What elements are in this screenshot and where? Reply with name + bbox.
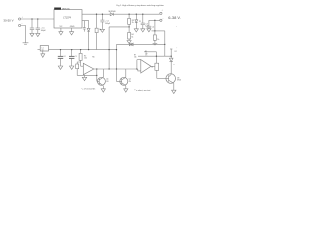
- svg-text:R6: R6: [92, 56, 94, 58]
- svg-text:10k: 10k: [134, 57, 137, 59]
- svg-text:-: -: [22, 23, 23, 25]
- svg-text:MUR340: MUR340: [109, 11, 116, 13]
- svg-text:*: *: [177, 48, 178, 50]
- svg-text:C5: C5: [75, 56, 77, 58]
- svg-text:6-38 V.: 6-38 V.: [168, 15, 181, 20]
- svg-text:R7: R7: [134, 55, 136, 57]
- svg-text:**: **: [173, 65, 175, 67]
- svg-text:C4: C4: [64, 56, 66, 58]
- svg-text:VC: VC: [60, 26, 63, 28]
- svg-text:R5: R5: [145, 51, 147, 53]
- svg-text:3906: 3906: [177, 80, 181, 82]
- svg-text:100µF: 100µF: [41, 30, 47, 32]
- svg-text:GND: GND: [70, 26, 75, 28]
- svg-text:+: +: [162, 10, 164, 12]
- svg-text:+: +: [22, 17, 24, 19]
- svg-text:** = select, see text: ** = select, see text: [134, 89, 151, 92]
- svg-text:2N: 2N: [129, 81, 132, 83]
- svg-text:2k: 2k: [132, 22, 134, 24]
- svg-text:C4: C4: [152, 27, 154, 29]
- svg-text:10k: 10k: [145, 53, 148, 55]
- svg-text:5k: 5k: [131, 36, 133, 38]
- svg-text:MBR745: MBR745: [62, 8, 71, 10]
- svg-text:30-50 V: 30-50 V: [3, 19, 13, 23]
- svg-text:100µF: 100µF: [105, 23, 111, 25]
- svg-text:1k: 1k: [151, 66, 153, 68]
- svg-text:D2: D2: [175, 51, 177, 53]
- svg-text:Fig 1. High efficiency step-do: Fig 1. High efficiency step-down switchi…: [117, 4, 165, 7]
- svg-text:10k: 10k: [84, 58, 87, 60]
- svg-text:Z1: Z1: [139, 21, 141, 23]
- svg-text:1k: 1k: [157, 39, 159, 41]
- svg-text:2N: 2N: [106, 81, 109, 83]
- svg-text:* = 1% metal film: * = 1% metal film: [81, 87, 96, 90]
- svg-text:*: *: [176, 27, 177, 29]
- svg-text:-: -: [163, 18, 164, 20]
- svg-text:1k: 1k: [99, 29, 101, 31]
- svg-text:L1: L1: [42, 47, 44, 49]
- svg-text:LT1074: LT1074: [63, 18, 71, 20]
- svg-text:50: 50: [42, 49, 44, 51]
